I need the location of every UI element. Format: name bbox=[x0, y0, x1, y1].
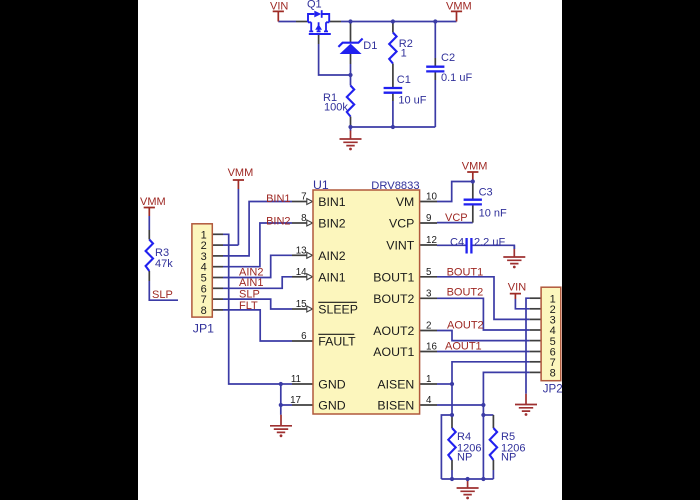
pin stubs JP1 bbox=[212, 233, 223, 235]
pin R5 bottom bbox=[492, 460, 494, 470]
svg-text:BOUT2: BOUT2 bbox=[447, 287, 484, 299]
power symbol VMM above JP1 bbox=[233, 180, 244, 189]
svg-text:BIN1: BIN1 bbox=[318, 195, 345, 209]
node C2 top junction bbox=[433, 19, 437, 23]
svg-text:8: 8 bbox=[201, 305, 207, 317]
pin Q1 source lead bbox=[296, 21, 308, 23]
wire BIN2: JP1 pin 4 to U1 pin 8 bbox=[223, 223, 292, 267]
svg-text:AOUT1: AOUT1 bbox=[445, 341, 482, 353]
wire VMM to VM pin of U1 bbox=[437, 182, 473, 202]
pin arrow U1 pin 8 bbox=[307, 220, 313, 226]
resistor R2 zigzag bbox=[389, 33, 396, 64]
svg-text:JP2: JP2 bbox=[543, 384, 563, 396]
wire bottom rail of input stage bbox=[351, 126, 436, 128]
pin stubs U1 left side bbox=[292, 201, 308, 203]
capacitor C3 plates bbox=[464, 200, 482, 205]
wire BIN1: JP1 pin 3 to U1 pin 7 bbox=[223, 202, 292, 256]
node GND bus pin 17 bbox=[279, 403, 283, 407]
svg-text:15: 15 bbox=[296, 299, 307, 310]
ground below R1 bbox=[340, 131, 362, 146]
svg-text:8: 8 bbox=[550, 368, 556, 380]
svg-text:AIN2: AIN2 bbox=[318, 249, 345, 263]
wire BISEN up to JP2 pin 8 bbox=[483, 372, 529, 405]
connector JP1 body bbox=[192, 224, 212, 317]
wire AISEN node bbox=[437, 383, 452, 385]
transistor Q1 body-diode loop bbox=[308, 14, 329, 22]
node rail C1 junction bbox=[391, 125, 395, 129]
transistor Q1 source drain ticks bbox=[308, 21, 329, 23]
svg-text:C1: C1 bbox=[397, 74, 411, 86]
transistor Q1 body diode triangle bbox=[314, 11, 321, 18]
ground below R4 R5 bbox=[457, 479, 479, 495]
wire R3 bottom to SLP stub bbox=[149, 281, 178, 300]
svg-text:12: 12 bbox=[426, 235, 437, 246]
wire SLP: JP1 pin 7 to U1 pin 15 bbox=[223, 299, 292, 309]
svg-text:U1: U1 bbox=[313, 178, 329, 192]
svg-text:D1: D1 bbox=[363, 40, 377, 52]
svg-text:SLEEP: SLEEP bbox=[318, 303, 358, 317]
wire AOUT1 to JP2 pin 6 bbox=[437, 351, 530, 353]
pin Q1 gate lead bbox=[318, 34, 320, 44]
capacitor C4 plates bbox=[467, 238, 472, 254]
diode D1 zener triangle bbox=[340, 44, 362, 54]
wire AOUT2 to JP2 pin 5 bbox=[437, 331, 530, 341]
svg-text:5: 5 bbox=[426, 267, 432, 278]
svg-text:C3: C3 bbox=[479, 187, 493, 199]
svg-text:13: 13 bbox=[296, 245, 307, 256]
wire node to R1 top bbox=[350, 75, 352, 86]
wire AISEN up to JP2 pin 7 bbox=[452, 362, 530, 384]
svg-text:1: 1 bbox=[401, 48, 407, 60]
svg-text:BIN1: BIN1 bbox=[266, 193, 290, 205]
power symbol VIN top left bbox=[273, 11, 284, 21]
resistor R4 zigzag bbox=[448, 428, 455, 460]
wire C4 to ground bbox=[471, 245, 514, 249]
pin stubs JP2 bbox=[530, 297, 542, 299]
svg-text:SLP: SLP bbox=[239, 289, 260, 301]
svg-text:7: 7 bbox=[301, 192, 306, 203]
node R2 top junction bbox=[391, 19, 395, 23]
svg-text:1: 1 bbox=[426, 374, 431, 385]
svg-text:AOUT2: AOUT2 bbox=[373, 324, 414, 338]
pin C1 bottom bbox=[392, 93, 394, 101]
svg-text:C2: C2 bbox=[441, 52, 455, 64]
svg-text:10 uF: 10 uF bbox=[398, 95, 426, 107]
wire C2 top bbox=[434, 22, 436, 59]
svg-text:BIN2: BIN2 bbox=[266, 216, 290, 228]
pin C3 bottom bbox=[472, 204, 474, 222]
node sense rail R4 bbox=[450, 477, 454, 481]
svg-text:Q1: Q1 bbox=[307, 0, 322, 11]
pin stubs U1 right side bbox=[420, 201, 437, 203]
wire AIN2: JP1 pin 5 to U1 pin 13 bbox=[223, 255, 292, 277]
svg-text:BIN2: BIN2 bbox=[318, 217, 345, 231]
svg-text:3: 3 bbox=[426, 288, 432, 299]
svg-text:DRV8833: DRV8833 bbox=[371, 180, 419, 192]
transistor Q1 channel fingers bbox=[311, 22, 326, 31]
wire JP2 pin 1 to ground bbox=[526, 298, 530, 394]
wire G5 stem top bbox=[513, 245, 515, 249]
svg-text:AIN1: AIN1 bbox=[239, 277, 263, 289]
connector JP2 body bbox=[541, 287, 561, 381]
wire VMM to JP1 pins 1-2 column bbox=[237, 189, 239, 245]
node gate junction bbox=[348, 73, 352, 77]
svg-text:NP: NP bbox=[501, 452, 516, 464]
svg-text:AISEN: AISEN bbox=[377, 378, 414, 392]
wire C2 bottom bbox=[434, 80, 436, 127]
pin R1 bottom bbox=[350, 117, 352, 128]
pin arrow U1 pin 15 bbox=[307, 306, 313, 312]
pin arrow U1 pin 14 bbox=[307, 274, 313, 280]
svg-text:2.2 uF: 2.2 uF bbox=[474, 237, 505, 249]
svg-text:BOUT2: BOUT2 bbox=[373, 292, 414, 306]
svg-text:R5: R5 bbox=[501, 431, 515, 443]
svg-text:AOUT2: AOUT2 bbox=[447, 320, 484, 332]
wire C3 bottom to VCP pin bbox=[437, 222, 473, 224]
pin R4 bottom bbox=[451, 460, 453, 470]
node BISEN junction bbox=[481, 403, 485, 407]
pin D1 cathode bbox=[350, 22, 352, 43]
svg-text:9: 9 bbox=[426, 213, 431, 224]
node VMM C3 junction bbox=[471, 179, 475, 183]
svg-text:VCP: VCP bbox=[445, 212, 468, 224]
wire JP1 pin 1 to GND bus bbox=[223, 234, 281, 384]
power symbol VMM top right bbox=[451, 11, 462, 21]
resistor R5 zigzag bbox=[490, 428, 497, 460]
wire D1 anode to node bbox=[350, 64, 352, 75]
svg-text:2: 2 bbox=[426, 321, 431, 332]
wire GND bus to U1 GND pins bbox=[281, 383, 292, 385]
pin R2 top bbox=[392, 22, 394, 33]
wire R5 bypass bracket bbox=[482, 415, 484, 479]
wire G1 stem top bbox=[350, 127, 352, 131]
svg-text:6: 6 bbox=[301, 331, 307, 342]
pin C2 bottom bbox=[434, 71, 436, 80]
wire BISEN down to R5 bbox=[482, 405, 484, 415]
transistor Q1 body diode cathode bar bbox=[321, 10, 323, 18]
svg-text:C4: C4 bbox=[450, 237, 464, 249]
svg-text:VMM: VMM bbox=[228, 167, 254, 179]
pin R4 top bbox=[451, 415, 453, 428]
svg-text:BOUT1: BOUT1 bbox=[373, 270, 414, 284]
svg-text:SLP: SLP bbox=[152, 289, 173, 301]
transistor Q1 gate bar bbox=[309, 33, 331, 35]
node rail R1 junction bbox=[348, 125, 352, 129]
pin R2 bottom / C1 top bbox=[392, 64, 394, 89]
svg-text:10 nF: 10 nF bbox=[479, 208, 507, 220]
pin R3 top bbox=[148, 230, 150, 240]
ground below U1 GND pins bbox=[270, 415, 292, 433]
node AISEN junction bbox=[450, 382, 454, 386]
wire VINT pin to C4 bbox=[437, 244, 466, 246]
wire R2 bottom to C1 handled by pins bbox=[392, 101, 394, 127]
svg-text:AOUT1: AOUT1 bbox=[373, 345, 414, 359]
wire BOUT1 to JP2 pin 3 bbox=[437, 277, 530, 320]
wire BOUT2 to JP2 pin 4 bbox=[437, 298, 530, 330]
pin R3 bottom bbox=[148, 271, 150, 281]
wire sense bottom rail bbox=[441, 478, 493, 480]
wire VIN to JP2 pin 2 bbox=[515, 299, 529, 309]
wire FLT: JP1 pin 8 to U1 pin 6 bbox=[223, 310, 292, 341]
svg-text:BISEN: BISEN bbox=[377, 399, 414, 413]
wire BISEN node bbox=[437, 404, 483, 406]
overline FAULT bbox=[318, 333, 354, 335]
op-amp U1 ic body DRV8833 bbox=[313, 190, 420, 414]
svg-text:11: 11 bbox=[291, 374, 301, 385]
wire Q1 drain to VMM rail bbox=[341, 21, 457, 23]
svg-text:VMM: VMM bbox=[446, 1, 472, 13]
pin Q1 drain lead bbox=[329, 21, 341, 23]
pin arrow U1 pin 7 bbox=[307, 199, 313, 205]
node sense rail R5 bbox=[481, 477, 485, 481]
power symbol VIN above JP2 bbox=[510, 294, 521, 299]
wire AIN1: JP1 pin 6 to U1 pin 14 bbox=[223, 277, 292, 289]
power symbol VMM above C3 bbox=[467, 172, 478, 182]
node GND bus pin 11 bbox=[279, 382, 283, 386]
diode D1 cathode bar with zener wings bbox=[338, 39, 362, 47]
svg-text:100k: 100k bbox=[324, 102, 348, 114]
svg-text:4: 4 bbox=[426, 395, 432, 406]
overline SLEEP bbox=[318, 301, 357, 303]
transistor Q1 finger feet bbox=[309, 30, 328, 32]
wire node gate: Q1 gate down and right to R1/D1 node bbox=[319, 44, 351, 75]
capacitor C1 plates bbox=[384, 88, 403, 93]
pin D1 anode bbox=[350, 54, 352, 64]
capacitor C2 plates bbox=[426, 67, 444, 72]
svg-text:8: 8 bbox=[301, 213, 307, 224]
svg-text:FLT: FLT bbox=[239, 300, 258, 312]
node D1 top junction bbox=[348, 19, 352, 23]
wire VIN to Q1 bbox=[278, 21, 296, 23]
svg-text:NP: NP bbox=[457, 452, 472, 464]
wire R5 bottom bbox=[492, 470, 494, 479]
svg-text:10: 10 bbox=[426, 192, 437, 203]
wire R5 top link bbox=[483, 414, 493, 416]
node R5 top junction bbox=[481, 413, 485, 417]
svg-text:VIN: VIN bbox=[508, 282, 526, 294]
wire GND bus down to ground bbox=[280, 405, 282, 415]
svg-text:AIN1: AIN1 bbox=[318, 270, 345, 284]
wire R3 top from VMM bbox=[148, 216, 150, 230]
svg-text:GND: GND bbox=[318, 399, 345, 413]
wire AISEN down to R4 bbox=[451, 384, 453, 415]
svg-text:VMM: VMM bbox=[140, 196, 166, 208]
svg-text:16: 16 bbox=[426, 342, 437, 353]
power symbol VMM above R3 bbox=[144, 208, 155, 217]
svg-text:VCP: VCP bbox=[389, 217, 414, 231]
ground below C4 bbox=[503, 249, 525, 264]
ground below JP2 bbox=[515, 394, 537, 411]
pin C2 top bbox=[434, 58, 436, 67]
svg-text:VIN: VIN bbox=[270, 1, 288, 13]
node sense rail ground bbox=[466, 477, 470, 481]
svg-text:BOUT1: BOUT1 bbox=[447, 267, 484, 279]
wire R4 bottom bbox=[451, 470, 453, 479]
svg-text:FAULT: FAULT bbox=[318, 335, 356, 349]
svg-text:VINT: VINT bbox=[386, 239, 414, 253]
svg-text:VM: VM bbox=[396, 195, 414, 209]
svg-text:GND: GND bbox=[318, 378, 345, 392]
svg-text:VMM: VMM bbox=[462, 160, 488, 172]
svg-text:17: 17 bbox=[290, 395, 301, 406]
svg-text:47k: 47k bbox=[155, 258, 173, 270]
resistor R1 zigzag bbox=[347, 86, 354, 117]
svg-text:0.1 uF: 0.1 uF bbox=[441, 72, 472, 84]
transistor Q1 body arrow bbox=[315, 24, 322, 30]
node R4 top junction bbox=[450, 413, 454, 417]
pin arrow U1 pin 13 bbox=[307, 252, 313, 258]
resistor R3 zigzag bbox=[146, 240, 153, 272]
svg-text:JP1: JP1 bbox=[193, 322, 214, 336]
pin C3 top bbox=[472, 182, 474, 200]
svg-text:R4: R4 bbox=[457, 431, 471, 443]
wire JP1 pin 2 to VMM bbox=[223, 244, 238, 246]
svg-text:14: 14 bbox=[296, 267, 307, 278]
pin R5 top bbox=[492, 415, 494, 428]
wire R4 bypass bracket bbox=[441, 415, 452, 479]
